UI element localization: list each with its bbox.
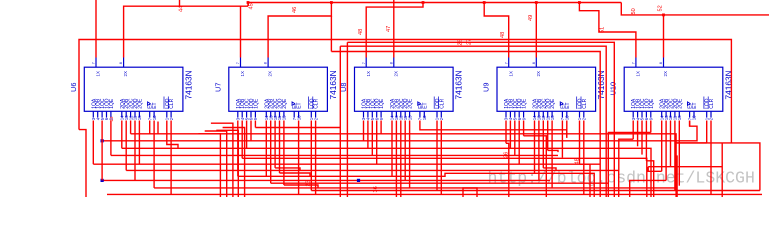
wire bus y164	[93, 163, 600, 165]
wire riser between U6 U7	[216, 130, 238, 197]
wire bus y187	[154, 187, 677, 189]
wire elbow U10 pin6	[648, 167, 662, 172]
svg-text:ET: ET	[422, 102, 428, 108]
svg-text:49: 49	[528, 15, 534, 21]
svg-text:1QE: 1QE	[253, 98, 259, 109]
wire riser x722	[721, 143, 723, 197]
svg-text:45: 45	[249, 3, 255, 9]
wire elbow U9 pin9	[548, 150, 558, 152]
wire riser U10 left top pin	[579, 3, 636, 58]
svg-text:2X: 2X	[663, 71, 668, 76]
svg-text:CLR: CLR	[709, 98, 715, 108]
wire riser between U6 U7	[223, 128, 245, 198]
svg-text:7: 7	[236, 62, 240, 64]
wire pin drop U8 pin14	[440, 121, 442, 195]
wire pin drop U7 pin3	[246, 121, 248, 149]
wire riser U8 left top pin	[366, 3, 423, 58]
wire pin drop U8 pin3	[371, 121, 373, 156]
svg-text:2QE: 2QE	[550, 98, 556, 109]
wire pin drop U7 pin7	[270, 121, 272, 184]
counter IC U10 74163N	[609, 58, 734, 121]
wire pin drop U6 pin14	[170, 121, 172, 195]
svg-text:CLR: CLR	[439, 98, 445, 108]
svg-text:1X: 1X	[636, 71, 641, 76]
wire net stub riser 158	[157, 122, 159, 134]
wire lineA end down and right to edge	[621, 3, 769, 15]
wire bus y148	[122, 148, 651, 197]
svg-text:74163N: 74163N	[328, 70, 338, 99]
junction on lineA at x536	[535, 1, 538, 4]
wire elbow U7 pin10	[284, 185, 318, 188]
wire pin drop U6 pin5	[110, 121, 112, 156]
wire bus y46	[340, 46, 606, 197]
svg-text:U6: U6	[69, 83, 78, 92]
wire pin drop U7 pin5	[254, 121, 256, 128]
wire pin drop U8 pin1	[363, 121, 365, 141]
svg-text:2X: 2X	[123, 71, 128, 76]
wire bus y179	[102, 179, 550, 181]
svg-text:10: 10	[565, 115, 570, 120]
wire elbow U10 pin1	[619, 139, 633, 170]
svg-text:7: 7	[92, 62, 96, 64]
wire U8 right top pin to top edge	[393, 0, 395, 58]
svg-text:44: 44	[179, 6, 185, 12]
wire pin drop U7 pin6	[265, 121, 267, 177]
wire elbow U9 pin5	[524, 136, 547, 197]
svg-text:10: 10	[296, 115, 301, 120]
wire pin drop U10 pin14	[710, 121, 712, 195]
wire pin drop U7 pin12	[298, 121, 300, 195]
svg-text:1X: 1X	[508, 71, 513, 76]
wire bus y170	[126, 170, 619, 197]
wire pin drop U9 pin1	[505, 121, 507, 144]
wire riser between U6 U7	[205, 131, 227, 197]
wire pin drop U10 pin13	[706, 121, 708, 143]
counter IC U6 74163N	[69, 58, 194, 121]
wire pin drop U6 pin1	[92, 121, 94, 165]
wire elbow U7 pin13	[311, 190, 410, 192]
wire pin drop U8 pin5	[380, 121, 382, 134]
wire bus y155	[111, 154, 558, 156]
wire pin drop U9 pin5	[523, 121, 525, 136]
svg-text:1QE: 1QE	[379, 98, 385, 109]
svg-text:52: 52	[658, 5, 664, 11]
svg-text:2X: 2X	[393, 71, 398, 76]
svg-text:36: 36	[373, 186, 379, 192]
wire lineA clock bus	[248, 2, 621, 4]
svg-text:1X: 1X	[366, 71, 371, 76]
wire bus y42	[347, 42, 614, 197]
junction blue at 102/140	[101, 139, 104, 142]
wire pin drop U8 pin9	[404, 121, 406, 181]
junction blue at 102/179	[101, 179, 104, 182]
wire elbow U7 pin8	[275, 168, 300, 171]
wire right loop y142	[676, 143, 760, 191]
junction on lineA at x331	[330, 1, 333, 4]
wire riser U9 left top pin	[484, 3, 509, 58]
wire bus y51	[331, 52, 600, 198]
wire pin drop U10 pin3	[641, 121, 643, 155]
wire elbow U9 pin1	[506, 143, 509, 197]
wire riser between U7 U8 b	[346, 42, 348, 197]
wire riser x677	[676, 155, 678, 197]
wire riser between U6 U7	[198, 134, 220, 197]
wire pin drop U6 pin6	[121, 121, 123, 149]
wire bus y127	[255, 127, 340, 129]
wire pin drop U10 pin4	[645, 121, 647, 161]
svg-text:74163N: 74163N	[183, 70, 193, 99]
wire pin drop U9 pin12	[566, 121, 568, 138]
svg-text:26: 26	[504, 152, 510, 158]
svg-text:2QE: 2QE	[677, 98, 683, 109]
wire pin drop U7 pin10	[283, 121, 285, 186]
wire elbow U10 pin13	[676, 142, 707, 144]
svg-text:8: 8	[532, 62, 536, 64]
svg-text:50: 50	[631, 8, 637, 14]
svg-text:2QE: 2QE	[408, 98, 414, 109]
svg-text:1QE: 1QE	[109, 98, 115, 109]
wire pin drop U9 pin4	[518, 121, 520, 165]
svg-text:2QE: 2QE	[282, 98, 288, 109]
wire pin drop U6 pin13 elbow	[167, 121, 178, 149]
svg-text:2QE: 2QE	[137, 98, 143, 109]
svg-text:1QE: 1QE	[649, 98, 655, 109]
svg-text:CLR: CLR	[582, 98, 588, 108]
wire pin drop U10 pin6	[661, 121, 663, 172]
wire pin drop U9 pin6	[534, 121, 536, 174]
wire pin drop U6 pin11	[149, 121, 151, 134]
svg-text:7: 7	[362, 62, 366, 64]
wire elbow U10 pin7	[630, 180, 666, 197]
wire pin drop U7 pin13	[310, 121, 312, 191]
svg-text:8: 8	[389, 62, 393, 64]
svg-text:10: 10	[422, 115, 427, 120]
svg-text:1X: 1X	[96, 71, 101, 76]
svg-text:46: 46	[292, 7, 298, 13]
wire riser at x248 joining lineA	[247, 3, 249, 7]
svg-text:51: 51	[600, 27, 606, 33]
wire pin drop U6 pin3	[101, 121, 103, 181]
svg-text:10: 10	[152, 115, 157, 120]
wire pin drop U8 pin4	[376, 121, 378, 165]
wire pin drop U6 pin8	[130, 121, 132, 134]
wire bus y158	[242, 158, 647, 197]
wire riser U7 left top pin	[240, 6, 242, 57]
svg-text:47: 47	[386, 26, 392, 32]
wire pin drop U6 pin9	[134, 121, 136, 181]
wire pin drop U10 pin8	[670, 121, 672, 167]
wire pin drop U9 pin3	[514, 121, 516, 156]
wire bus y166	[648, 166, 722, 168]
wire pin drop U8 pin6	[391, 121, 393, 177]
wire pin drop U6 pin10	[138, 121, 140, 165]
svg-text:CLR: CLR	[314, 98, 320, 108]
counter IC U9 74163N	[482, 58, 607, 121]
svg-text:ET: ET	[152, 102, 158, 108]
wire riser between U6 U7	[211, 123, 233, 197]
svg-text:23: 23	[306, 180, 312, 186]
wire pin drop U10 pin1	[632, 121, 634, 140]
wire elbow U7 pin9	[280, 173, 311, 176]
svg-text:48: 48	[575, 158, 581, 164]
junction on lineA at x423	[422, 1, 425, 4]
wire U8 pin11 elbow bus y129	[420, 121, 567, 138]
junction blue at 358/179	[357, 179, 360, 182]
svg-text:74163N: 74163N	[454, 70, 464, 99]
wire pin drop U7 pin8	[274, 121, 276, 168]
svg-text:15: 15	[137, 115, 142, 120]
svg-text:ET: ET	[297, 102, 303, 108]
wire pin drop U9 pin14	[583, 121, 585, 195]
wire riser between U7 U8 a	[339, 46, 341, 197]
svg-text:ET: ET	[692, 102, 698, 108]
wire riser U7 right top pin	[268, 3, 331, 58]
wire elbow U10 pin4	[646, 161, 653, 197]
wire pin drop U8 pin13	[436, 121, 438, 191]
wire riser x331 tail	[330, 16, 332, 52]
wire pin drop U8 pin7	[395, 121, 397, 198]
junction on lineA at x248	[247, 1, 250, 4]
wire pin drop U10 pin2	[637, 121, 639, 147]
wire pin drop U10 pin11	[689, 121, 691, 127]
wire pin drop U8 pin2	[367, 121, 369, 149]
wire elbow U9 pin13	[580, 164, 591, 197]
wire pin drop U9 pin11	[561, 121, 563, 158]
wire pin drop U10 pin5	[650, 121, 652, 133]
svg-text:7: 7	[632, 62, 636, 64]
svg-text:8: 8	[659, 62, 663, 64]
wire pin drop U8 pin8	[400, 121, 402, 198]
wire pin drop U9 pin8	[542, 121, 544, 168]
wire pin drop U7 pin9	[279, 121, 281, 174]
svg-text:CLR: CLR	[169, 98, 175, 108]
svg-text:U9: U9	[482, 83, 491, 92]
wire bottom stub box	[463, 188, 477, 197]
counter IC U7 74163N	[213, 58, 338, 121]
wire pin drop U9 pin13	[579, 121, 581, 165]
svg-text:U10: U10	[609, 82, 618, 96]
svg-text:2X: 2X	[268, 71, 273, 76]
junction at U10 right pin riser	[662, 14, 665, 17]
svg-text:U7: U7	[213, 83, 222, 92]
svg-text:15: 15	[677, 115, 682, 120]
wire bus y190	[410, 190, 760, 192]
wire pin drop U9 pin10	[551, 121, 553, 188]
wire riser U9 right top pin	[535, 3, 537, 58]
wire left riser jog down	[79, 130, 86, 197]
svg-text:74163N: 74163N	[596, 70, 606, 99]
wire pin drop U10 pin10	[678, 121, 680, 186]
wire pin drop U9 pin9	[547, 121, 549, 151]
svg-text:1X: 1X	[240, 71, 245, 76]
junction on lineA at x484	[483, 1, 486, 4]
wire pin drop U9 pin7	[538, 121, 540, 181]
svg-text:15: 15	[407, 115, 412, 120]
wire bus y176-y173 jog	[238, 173, 594, 197]
svg-text:48: 48	[500, 32, 506, 38]
svg-text:8: 8	[264, 62, 268, 64]
wire pin drop U9 pin2	[509, 121, 511, 149]
svg-text:7: 7	[504, 62, 508, 64]
svg-text:23: 23	[109, 116, 114, 122]
svg-text:15: 15	[550, 115, 555, 120]
counter IC U8 74163N	[339, 58, 464, 121]
svg-text:ET: ET	[565, 102, 571, 108]
wire pin drop U8 pin10	[409, 121, 411, 188]
wire bus y194	[107, 193, 762, 195]
wire pin drop U6 pin12	[153, 121, 155, 188]
svg-text:48: 48	[358, 29, 364, 35]
wire elbow U10 pin5	[608, 133, 651, 198]
svg-text:http://blog.csdn.net/LSKCGH: http://blog.csdn.net/LSKCGH	[488, 169, 755, 188]
wire bus y133	[131, 134, 677, 197]
wire lineB from U6 right top pin	[124, 6, 248, 57]
wire pin drop U7 pin1	[237, 121, 239, 177]
wire bus y140	[102, 121, 697, 141]
svg-text:8: 8	[119, 62, 123, 64]
wire stub to top edge at x179	[179, 0, 181, 6]
svg-text:1QE: 1QE	[522, 98, 528, 109]
wire pin drop U7 pin2	[241, 121, 243, 159]
junction on lineA at x579	[578, 1, 581, 4]
svg-text:10: 10	[692, 115, 697, 120]
wire bus y38 full width	[79, 40, 731, 143]
svg-text:15: 15	[282, 115, 287, 120]
wire pin drop U6 pin7	[125, 121, 127, 171]
wire pin drop U7 pin4	[250, 121, 252, 141]
wire U10 right top pin drop	[663, 15, 665, 58]
svg-text:2X: 2X	[536, 71, 541, 76]
wire bus y182	[271, 182, 609, 184]
wire pin drop U10 pin9	[674, 121, 676, 191]
wire pin drop U10 pin7	[665, 121, 667, 181]
wire elbow U9 pin8	[543, 168, 556, 171]
wire pin drop U7 pin14	[315, 121, 317, 195]
wire clock input to U6 left top pin	[95, 0, 97, 58]
